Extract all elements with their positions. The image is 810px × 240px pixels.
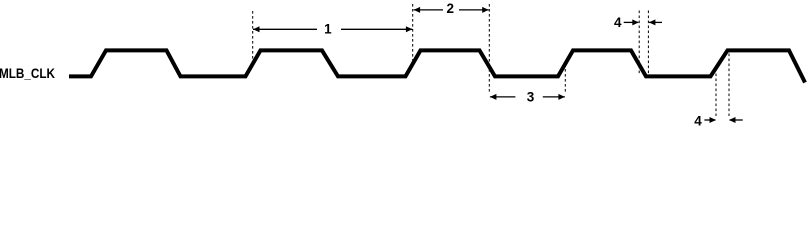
- clock waveform MLB_CLK: [69, 50, 805, 82]
- dimension 4 bottom (rise time) arrows and label: [694, 113, 742, 128]
- dashed reference line at rise end (dim 4 bottom right): [728, 54, 730, 117]
- svg-text:2: 2: [446, 1, 454, 16]
- dimension 1 (clock period) arrows and label: [253, 21, 412, 36]
- dashed reference line at rising edge (dim 3 right): [564, 64, 566, 94]
- dashed reference line at falling edge (dim 2 right / dim 3 left): [488, 4, 490, 94]
- svg-text:3: 3: [527, 90, 535, 105]
- dashed reference line at rising edge (dim 1 right / dim 2 left): [412, 4, 414, 64]
- dimension 3 (low pulse width) arrows and label: [490, 90, 565, 105]
- dashed reference line at fall end (dim 4 top right): [647, 11, 649, 75]
- dashed reference line at rise start (dim 4 bottom left): [715, 69, 717, 117]
- svg-text:4: 4: [694, 113, 702, 128]
- dashed reference line at rising edge (left end of dim 1): [252, 11, 254, 63]
- dashed reference line at fall start (dim 4 top left): [638, 11, 640, 75]
- dimension 4 top (fall time) arrows and label: [614, 15, 662, 30]
- svg-text:4: 4: [614, 15, 622, 30]
- signal label MLB_CLK: [0, 65, 55, 81]
- dimension 2 (high pulse width) arrows and label: [414, 1, 489, 16]
- svg-text:MLB_CLK: MLB_CLK: [0, 65, 55, 81]
- svg-text:1: 1: [324, 21, 332, 36]
